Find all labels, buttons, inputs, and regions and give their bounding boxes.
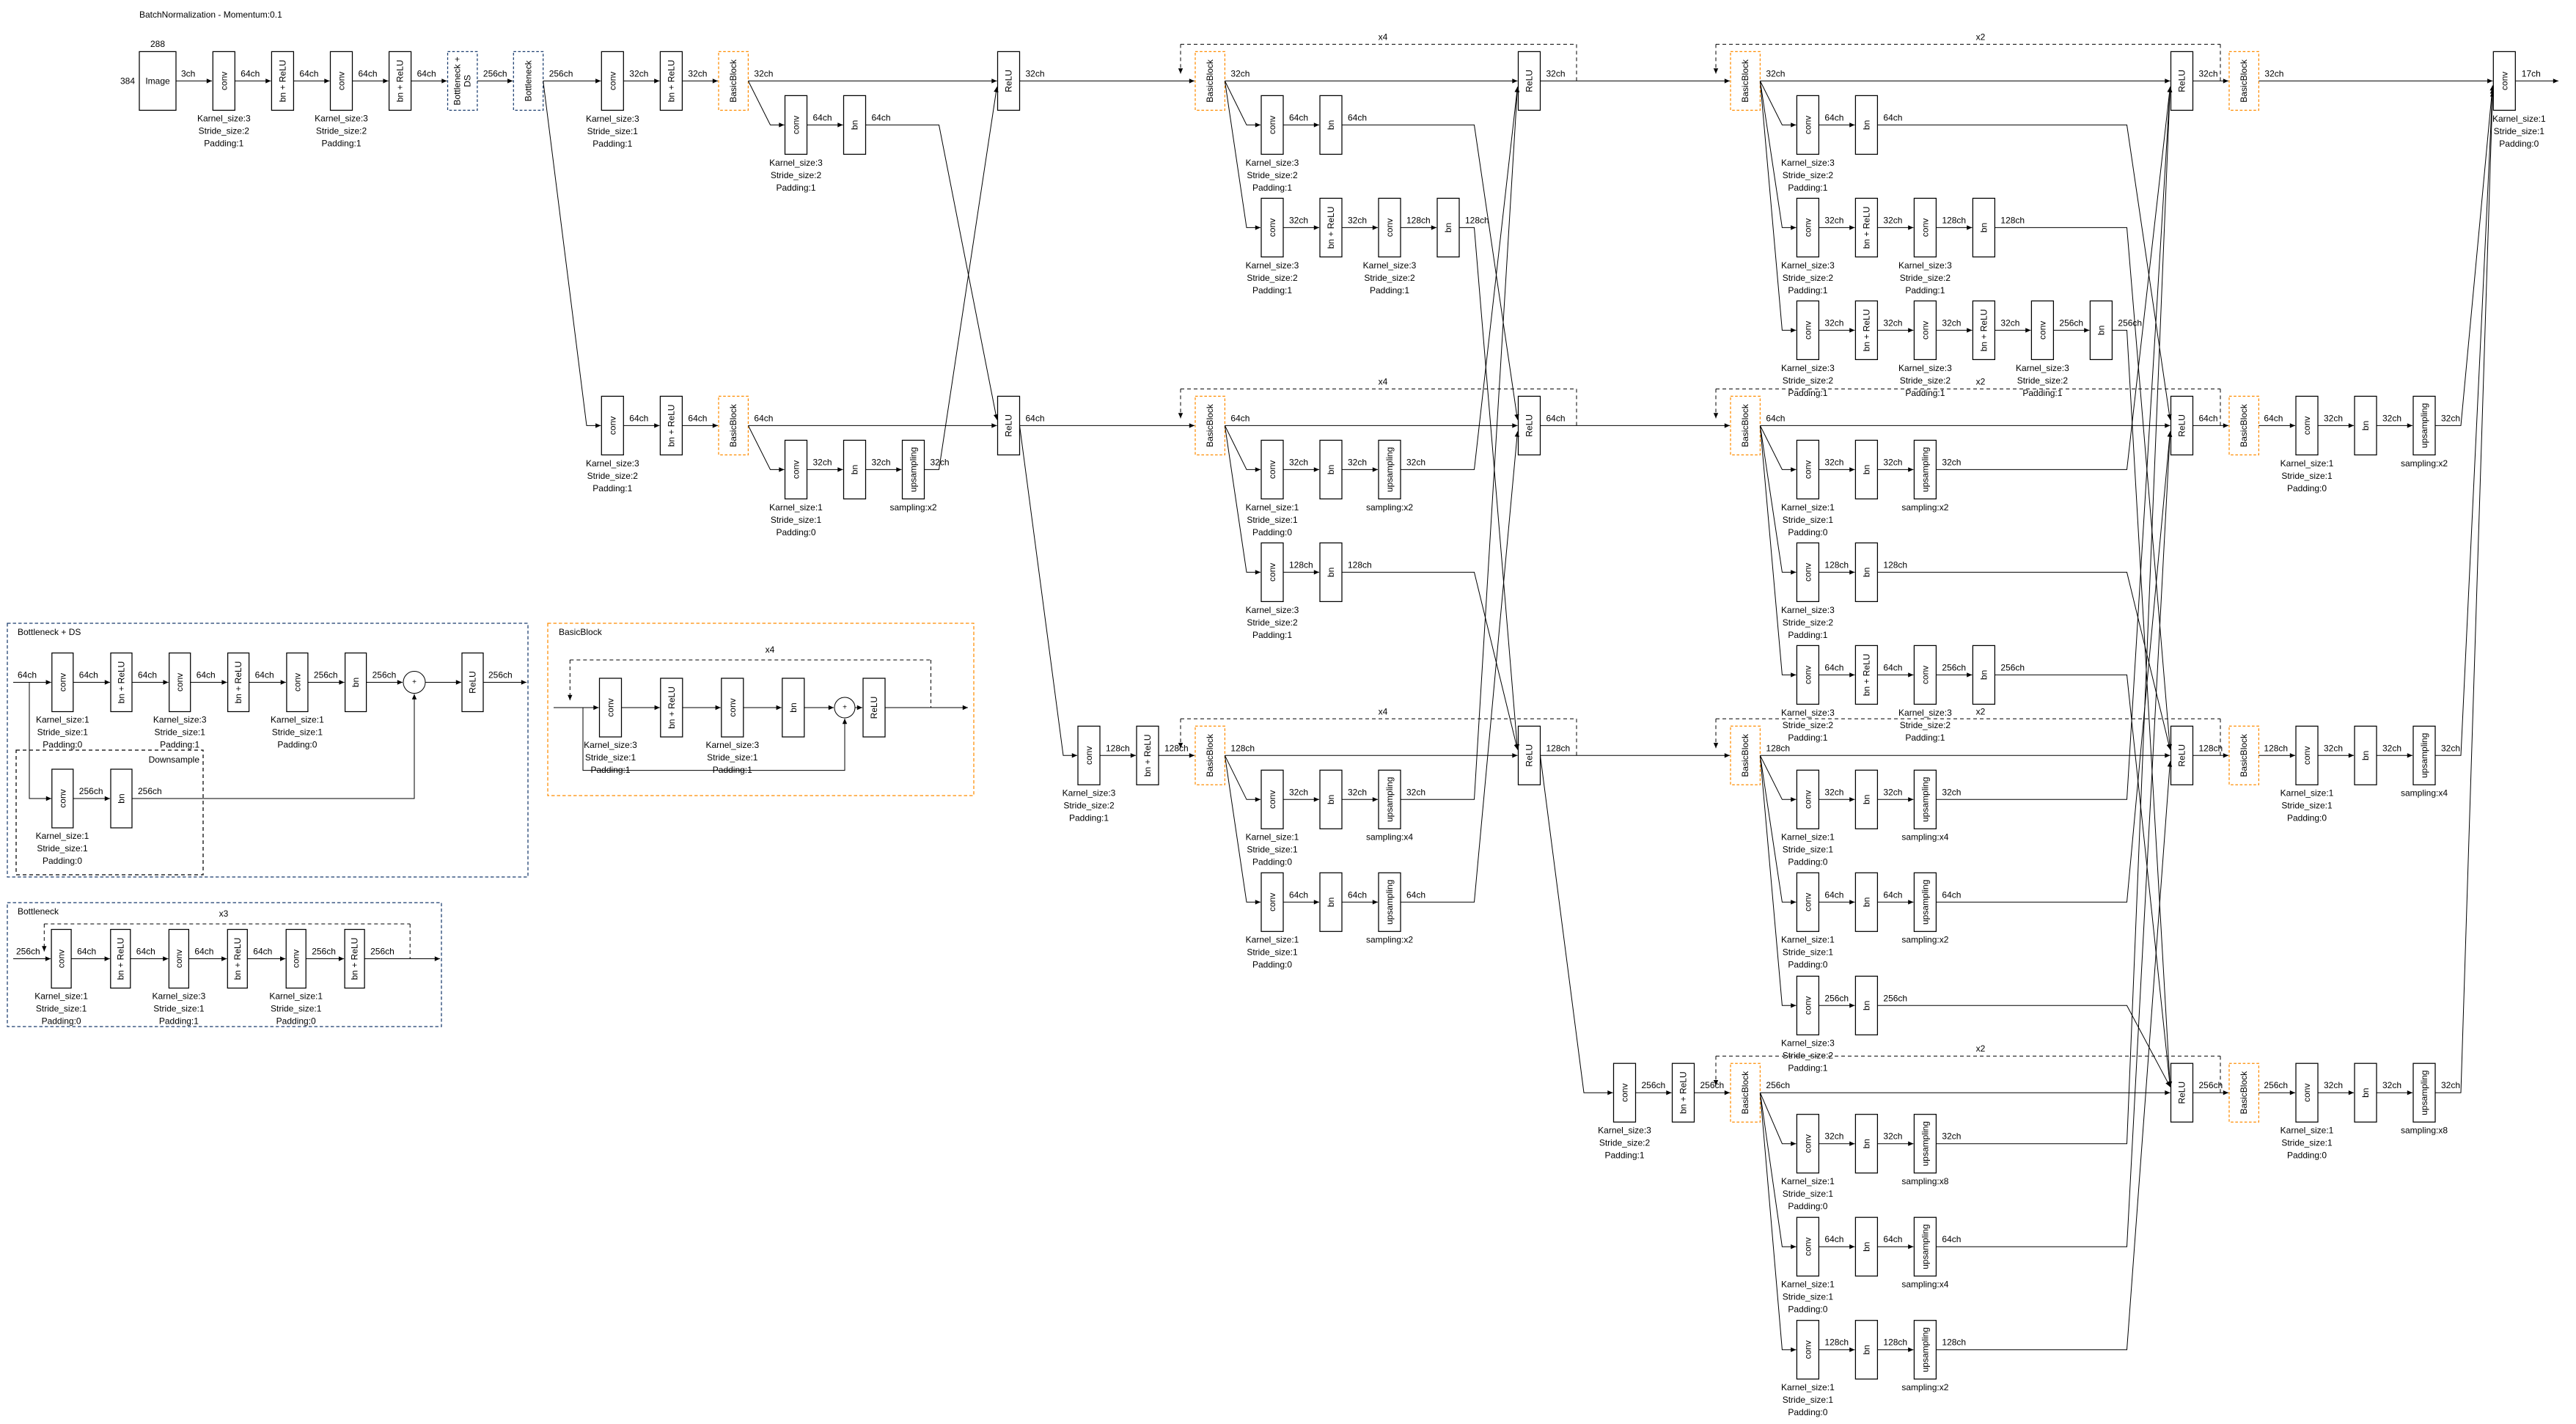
wire BasicBlock row2->branch1 S3 <box>1225 425 1261 469</box>
svg-text:32ch: 32ch <box>1348 787 1367 797</box>
wire bn+ReLU->BasicBlock S3 row3 <box>1159 755 1195 756</box>
svg-text:conv: conv <box>1920 219 1930 237</box>
svg-text:64ch: 64ch <box>688 413 707 423</box>
svg-text:32ch: 32ch <box>1348 215 1367 225</box>
S2 r2b1 sampling label <box>889 502 936 513</box>
svg-text:ReLU: ReLU <box>1524 414 1535 437</box>
S4 r3b3 bn box <box>1855 976 1877 1035</box>
svg-text:32ch: 32ch <box>1289 215 1308 225</box>
svg-text:BasicBlock: BasicBlock <box>2239 733 2249 777</box>
svg-text:Karnel_size:3: Karnel_size:3 <box>1898 708 1952 718</box>
legend Bottleneck outer box <box>7 903 441 1027</box>
svg-text:64ch: 64ch <box>255 670 274 680</box>
svg-text:64ch: 64ch <box>872 112 891 122</box>
svg-text:Downsample: Downsample <box>149 755 200 765</box>
legend3 wire add->ReLU <box>855 707 862 708</box>
S4 r1b3 conv params <box>1781 363 1835 398</box>
S4 r3b3 conv params <box>1781 1038 1835 1073</box>
svg-text:Stride_size:1: Stride_size:1 <box>2281 1138 2333 1148</box>
svg-text:32ch: 32ch <box>2000 318 2019 328</box>
S4 r1b1 bn box <box>1855 95 1877 154</box>
svg-text:32ch: 32ch <box>1942 318 1961 328</box>
svg-text:Stride_size:1: Stride_size:1 <box>36 1004 87 1014</box>
svg-text:32ch: 32ch <box>629 68 648 78</box>
wire S3 r2b2 0 <box>1283 559 1319 572</box>
svg-text:Padding:1: Padding:1 <box>159 1016 199 1027</box>
svg-text:ReLU: ReLU <box>869 697 879 719</box>
wire BasicBlock->ReLU S4 row2 <box>1760 425 2170 426</box>
wire branch row3->ReLU row2 S4 <box>1936 431 2170 902</box>
wire S4 r1b3 3 <box>1995 318 2030 330</box>
svg-text:sampling:x4: sampling:x4 <box>1366 832 1413 843</box>
wire ReLU S4->BasicBlock final row2 <box>2193 425 2229 426</box>
svg-text:bn: bn <box>1861 120 1871 130</box>
legend1 wire 1 <box>132 670 169 683</box>
wire BasicBlock row4->branch1 S4 <box>1760 1093 1796 1144</box>
svg-text:Stride_size:1: Stride_size:1 <box>2281 471 2333 481</box>
svg-text:upsampling: upsampling <box>1384 880 1395 925</box>
legend1 params conv1 <box>36 715 89 750</box>
svg-text:Padding:1: Padding:1 <box>1788 630 1827 640</box>
svg-text:conv: conv <box>607 72 617 90</box>
S4 r1b3 bn box <box>2090 301 2112 359</box>
svg-text:64ch: 64ch <box>1883 889 1902 900</box>
label 32ch <box>1766 68 1785 78</box>
svg-text:x2: x2 <box>1976 32 1986 42</box>
svg-text:64ch: 64ch <box>1406 889 1425 900</box>
svg-text:Padding:0: Padding:0 <box>1788 1201 1827 1211</box>
svg-text:Stride_size:1: Stride_size:1 <box>1783 515 1834 525</box>
svg-text:BasicBlock: BasicBlock <box>1205 403 1215 447</box>
S4 r3b2 conv params <box>1781 935 1835 970</box>
legend3 params conv2 <box>705 740 759 775</box>
wire bn->upsampling final row2 <box>2377 425 2412 426</box>
svg-text:upsampling: upsampling <box>2419 403 2429 448</box>
svg-text:BasicBlock: BasicBlock <box>728 59 738 103</box>
svg-text:32ch: 32ch <box>2199 68 2218 78</box>
S3 r3b2 conv box <box>1261 873 1283 931</box>
S3 r2b1 sampling label <box>1366 502 1413 513</box>
upsampling final row2 <box>2413 396 2435 455</box>
wire BasicBlock->ReLU S2 row1 <box>748 80 997 81</box>
S4 r1b2 conv box <box>1797 198 1819 257</box>
svg-text:3ch: 3ch <box>181 68 195 78</box>
svg-text:256ch: 256ch <box>312 947 336 957</box>
S4 r2b3 conv params <box>1781 708 1835 743</box>
svg-text:32ch: 32ch <box>1824 1131 1843 1142</box>
conv S3 row3 entry <box>1078 726 1100 785</box>
svg-text:sampling:x2: sampling:x2 <box>1366 502 1413 513</box>
wire branch row2->ReLU row1 S3 <box>1401 87 1518 469</box>
svg-text:128ch: 128ch <box>1942 1337 1966 1348</box>
S2 r2b1 bn box <box>844 440 866 499</box>
wire conv->bn+ReLU S2 row2 <box>623 425 659 426</box>
S4 r1b2 conv params <box>1781 260 1835 296</box>
svg-text:Bottleneck: Bottleneck <box>18 906 59 917</box>
wire bn+ReLU->Bottleneck+DS <box>411 80 447 81</box>
svg-text:256ch: 256ch <box>16 947 40 957</box>
label 128ch <box>1465 215 1489 225</box>
wire BasicBlock row4->branch3 S4 <box>1760 1093 1796 1350</box>
label 64ch <box>1026 413 1045 423</box>
label 64ch <box>2199 413 2218 423</box>
wire S4 r2b3 0 <box>1819 662 1854 675</box>
svg-text:32ch: 32ch <box>1230 68 1250 78</box>
legend1 conv box 4 <box>287 653 308 712</box>
bn + ReLU S1-2 <box>389 51 411 110</box>
svg-text:32ch: 32ch <box>688 68 707 78</box>
legend2 wire 4 <box>306 947 344 959</box>
S3 r2b1 conv box <box>1261 440 1283 499</box>
wire conv->bn+ReLU S4 row4 <box>1636 1092 1672 1093</box>
S3 r3b1 bn box <box>1320 770 1342 829</box>
svg-text:bn: bn <box>1861 795 1871 804</box>
legend1 bn box 5 <box>345 653 367 712</box>
sampling label final row3 <box>2401 788 2448 799</box>
svg-text:x4: x4 <box>1379 376 1388 386</box>
svg-text:sampling:x4: sampling:x4 <box>1901 1280 1948 1290</box>
svg-text:bn: bn <box>1326 795 1336 804</box>
svg-text:conv: conv <box>791 116 801 134</box>
label 32ch <box>2441 743 2460 753</box>
svg-text:upsampling: upsampling <box>1920 1225 1930 1269</box>
wire BasicBlock row3->branch2 S3 <box>1225 755 1261 902</box>
svg-text:BasicBlock: BasicBlock <box>2239 1071 2249 1115</box>
S3 r1b1 conv params <box>1246 158 1299 193</box>
svg-text:Stride_size:2: Stride_size:2 <box>316 125 367 136</box>
S4 r3b3 conv box <box>1797 976 1819 1035</box>
svg-text:Padding:1: Padding:1 <box>1788 733 1827 743</box>
svg-text:17ch: 17ch <box>2522 68 2541 78</box>
svg-text:32ch: 32ch <box>1824 318 1843 328</box>
wire S4 r3b2 1 <box>1877 889 1913 902</box>
svg-text:32ch: 32ch <box>1883 457 1902 467</box>
block BasicBlock S4 row3 <box>1731 726 1760 785</box>
svg-text:32ch: 32ch <box>813 457 832 467</box>
svg-text:conv: conv <box>219 72 229 90</box>
svg-text:64ch: 64ch <box>1546 413 1566 423</box>
params conv final row3 <box>2280 788 2334 823</box>
params conv output <box>2492 114 2546 149</box>
svg-text:Padding:0: Padding:0 <box>1252 527 1292 537</box>
wire upsampling->conv output row4 <box>2435 91 2492 1093</box>
svg-text:Padding:1: Padding:1 <box>776 183 815 193</box>
svg-text:Karnel_size:1: Karnel_size:1 <box>769 502 823 513</box>
svg-text:Padding:0: Padding:0 <box>1788 960 1827 970</box>
svg-text:sampling:x8: sampling:x8 <box>1901 1176 1948 1186</box>
svg-text:32ch: 32ch <box>1942 787 1961 797</box>
legend2 params conv1 <box>34 991 88 1027</box>
svg-text:Stride_size:1: Stride_size:1 <box>585 752 636 763</box>
svg-text:bn + ReLU: bn + ReLU <box>1326 207 1336 249</box>
wire S4 r1b3 0 <box>1819 318 1854 330</box>
svg-text:bn: bn <box>788 702 799 712</box>
legend1 wire bn->add (downsample path) <box>132 694 414 799</box>
svg-text:Stride_size:2: Stride_size:2 <box>1783 617 1834 628</box>
svg-text:bn: bn <box>1978 670 1989 680</box>
label 384 (image height) <box>120 76 135 86</box>
svg-text:Padding:1: Padding:1 <box>1788 183 1827 193</box>
label 32ch <box>1942 1131 1961 1142</box>
S4 r2b1 bn box <box>1855 440 1877 499</box>
S2 r1b1 conv box <box>785 95 807 154</box>
wire BasicBlock->ReLU S4 row3 <box>1760 755 2170 756</box>
svg-text:ReLU: ReLU <box>1004 414 1014 437</box>
svg-text:Karnel_size:1: Karnel_size:1 <box>1246 935 1299 945</box>
label 32ch <box>931 457 950 467</box>
S3 r1b2 conv box <box>1379 198 1401 257</box>
svg-text:ReLU: ReLU <box>1524 744 1535 767</box>
svg-text:conv: conv <box>292 673 302 691</box>
wire upsampling->conv output row3 <box>2435 88 2492 755</box>
S4 r4b2 bn box <box>1855 1217 1877 1276</box>
wire branch row3->ReLU row1 S3 <box>1401 87 1518 799</box>
S4 r1b3 bn + ReLU box <box>1855 301 1877 359</box>
S3 r1b1 conv box <box>1261 95 1283 154</box>
svg-text:conv: conv <box>1802 321 1813 340</box>
svg-text:Karnel_size:3: Karnel_size:3 <box>584 740 637 750</box>
svg-text:64ch: 64ch <box>1824 889 1843 900</box>
svg-text:256ch: 256ch <box>488 670 513 680</box>
label 64ch <box>1230 413 1250 423</box>
svg-text:Stride_size:1: Stride_size:1 <box>37 843 88 854</box>
svg-text:Karnel_size:3: Karnel_size:3 <box>1246 158 1299 168</box>
label 256ch <box>1642 1080 1666 1090</box>
svg-text:bn + ReLU: bn + ReLU <box>1861 309 1871 352</box>
svg-text:Karnel_size:1: Karnel_size:1 <box>2280 1126 2334 1136</box>
wire S4 r1b3 2 <box>1936 318 1972 330</box>
label 32ch <box>2441 413 2460 423</box>
legend1 wire conv->bn downsample <box>73 786 110 799</box>
legend3 loop dashed rect x4 <box>570 660 931 708</box>
wire S4 r2b3 1 <box>1877 662 1913 675</box>
label 64ch <box>1406 889 1425 900</box>
svg-text:x2: x2 <box>1976 1043 1986 1054</box>
S4 r3b2 conv box <box>1797 873 1819 931</box>
wire S3 r1b1 0 <box>1283 112 1319 125</box>
block BasicBlock S4 row4 <box>1731 1063 1760 1122</box>
sampling label final row4 <box>2401 1126 2448 1136</box>
S3 r1b2 conv params <box>1246 260 1299 296</box>
svg-text:BasicBlock: BasicBlock <box>728 403 738 447</box>
svg-text:bn + ReLU: bn + ReLU <box>277 60 287 103</box>
svg-text:ReLU: ReLU <box>2177 744 2187 767</box>
ReLU S4 row2 <box>2171 396 2193 455</box>
svg-text:bn + ReLU: bn + ReLU <box>232 938 243 980</box>
wire S2 r2b1 1 <box>866 457 902 469</box>
svg-text:Padding:0: Padding:0 <box>2499 139 2539 149</box>
svg-text:conv: conv <box>1267 116 1277 134</box>
wire BasicBlock row3->branch3 S4 <box>1760 755 1796 1005</box>
svg-text:Padding:1: Padding:1 <box>1905 285 1945 296</box>
legend1 params conv3 <box>271 715 324 750</box>
svg-text:upsampling: upsampling <box>1920 880 1930 925</box>
label 32ch <box>1406 787 1425 797</box>
wire BasicBlock row2->branch1 S2 <box>748 425 784 469</box>
svg-text:conv: conv <box>2037 321 2047 340</box>
svg-text:Stride_size:1: Stride_size:1 <box>1247 845 1298 855</box>
svg-text:32ch: 32ch <box>1824 215 1843 225</box>
svg-text:Karnel_size:1: Karnel_size:1 <box>269 991 323 1002</box>
wire BasicBlock->ReLU S3 row1 <box>1225 80 1517 81</box>
wire S4 r1b2 1 <box>1877 215 1913 227</box>
svg-text:bn: bn <box>2360 751 2371 760</box>
legend1 Downsample title <box>149 755 200 765</box>
svg-text:Stride_size:2: Stride_size:2 <box>587 471 639 481</box>
bn + ReLU S4 row4 <box>1673 1063 1695 1122</box>
svg-text:BasicBlock: BasicBlock <box>1205 59 1215 103</box>
label 64ch <box>2264 413 2283 423</box>
svg-text:sampling:x2: sampling:x2 <box>1366 935 1413 945</box>
svg-text:256ch: 256ch <box>2000 662 2025 672</box>
label 128ch <box>1348 559 1372 570</box>
label 128ch <box>2199 743 2223 753</box>
S4 r4b3 upsampling box <box>1914 1321 1936 1379</box>
svg-text:bn: bn <box>850 465 860 474</box>
svg-text:Stride_size:2: Stride_size:2 <box>1063 801 1115 811</box>
svg-text:Padding:1: Padding:1 <box>592 483 632 493</box>
legend3 conv box 2 <box>722 678 744 737</box>
label 32ch <box>2324 1080 2343 1090</box>
label 128ch <box>1883 559 1907 570</box>
svg-text:bn + ReLU: bn + ReLU <box>350 938 360 980</box>
svg-text:256ch: 256ch <box>1824 993 1849 1003</box>
label 17ch <box>2522 68 2541 78</box>
wire S4 r3b3 0 <box>1819 993 1854 1005</box>
wire branch row1->ReLU row3 S3 <box>1459 227 1518 749</box>
svg-text:bn: bn <box>1861 1139 1871 1148</box>
S3 r3b1 conv box <box>1261 770 1283 829</box>
S4 r3b1 sampling label <box>1901 832 1948 843</box>
block BasicBlock S4 row2 <box>1731 396 1760 455</box>
S3 r3b2 upsampling box <box>1379 873 1401 931</box>
svg-text:Padding:0: Padding:0 <box>1788 857 1827 867</box>
loop dashed rect x4 S3 row2 <box>1181 376 1577 425</box>
svg-text:Karnel_size:3: Karnel_size:3 <box>1598 1126 1651 1136</box>
svg-text:128ch: 128ch <box>1465 215 1489 225</box>
S3 r1b2 bn box <box>1437 198 1459 257</box>
S3 r2b2 bn box <box>1320 543 1342 601</box>
svg-text:BasicBlock: BasicBlock <box>1740 59 1750 103</box>
svg-text:conv: conv <box>1802 666 1813 684</box>
S2 r1b1 conv params <box>769 158 823 193</box>
legend1 downsample bn box <box>111 769 132 828</box>
svg-text:128ch: 128ch <box>1348 559 1372 570</box>
legend BasicBlock outer box <box>548 623 974 796</box>
loop dashed rect x2 S4 row3 <box>1716 706 2220 755</box>
svg-text:64ch: 64ch <box>18 670 37 680</box>
svg-text:64ch: 64ch <box>1230 413 1250 423</box>
svg-text:64ch: 64ch <box>2199 413 2218 423</box>
wire S4 r4b2 1 <box>1877 1234 1913 1247</box>
S3 r2b2 conv params <box>1246 605 1299 640</box>
legend BasicBlock title <box>559 627 603 637</box>
svg-text:sampling:x2: sampling:x2 <box>1901 1382 1948 1392</box>
legend3 wire 2 <box>744 707 782 708</box>
svg-text:Stride_size:2: Stride_size:2 <box>1247 273 1298 283</box>
label 32ch <box>1026 68 1045 78</box>
S4 r3b1 upsampling box <box>1914 770 1936 829</box>
sampling label final row2 <box>2401 458 2448 469</box>
svg-text:Stride_size:1: Stride_size:1 <box>153 1004 205 1014</box>
svg-text:256ch: 256ch <box>2118 318 2142 328</box>
svg-text:Padding:1: Padding:1 <box>204 138 243 148</box>
legend1 wire add->ReLU <box>425 682 461 683</box>
wire BasicBlock row2->branch2 S3 <box>1225 425 1261 572</box>
wire Bottleneck->row2 entry (diagonal) <box>543 81 601 425</box>
S4 r1b2 conv box <box>1914 198 1936 257</box>
S4 r2b2 conv params <box>1781 605 1835 640</box>
ReLU S2 row1 <box>998 51 1020 110</box>
params conv final row2 <box>2280 458 2334 493</box>
svg-text:Padding:1: Padding:1 <box>2022 388 2062 398</box>
legend3 wire 1 <box>683 707 721 708</box>
S4 r1b3 conv params <box>2016 363 2069 398</box>
svg-text:conv: conv <box>607 416 617 435</box>
svg-text:32ch: 32ch <box>1942 457 1961 467</box>
S4 r2b1 conv box <box>1797 440 1819 499</box>
svg-text:32ch: 32ch <box>1289 457 1308 467</box>
svg-text:128ch: 128ch <box>1883 1337 1907 1348</box>
block Bottleneck <box>513 51 543 110</box>
wire conv->bn+ReLU S3 row3 <box>1100 755 1136 756</box>
svg-text:256ch: 256ch <box>2264 1080 2288 1090</box>
svg-text:Padding:1: Padding:1 <box>592 139 632 149</box>
svg-text:32ch: 32ch <box>2324 743 2343 753</box>
wire S4 r1b3 1 <box>1877 318 1913 330</box>
svg-text:Karnel_size:3: Karnel_size:3 <box>769 158 823 168</box>
wire S3 r2b1 1 <box>1342 457 1378 469</box>
S4 r4b2 conv box <box>1797 1217 1819 1276</box>
wire S4 r1b1 0 <box>1819 112 1854 125</box>
S4 r1b1 conv box <box>1797 95 1819 154</box>
svg-text:Karnel_size:3: Karnel_size:3 <box>2016 363 2069 373</box>
params conv final row4 <box>2280 1126 2334 1161</box>
svg-text:64ch: 64ch <box>1348 889 1367 900</box>
wire branch row3->ReLU row1 S4 <box>1936 87 2170 799</box>
label 256ch <box>1883 993 1907 1003</box>
conv final row3 <box>2296 726 2318 785</box>
wire BasicBlock row1->branch2 S4 <box>1760 81 1796 227</box>
wire BasicBlock final row1 -> conv output <box>2258 80 2492 81</box>
S3 r1b2 bn + ReLU box <box>1320 198 1342 257</box>
bn final row2 <box>2355 396 2377 455</box>
legend Bottleneck + DS title <box>18 627 81 637</box>
svg-text:bn: bn <box>1326 120 1336 130</box>
svg-text:128ch: 128ch <box>1766 743 1790 753</box>
svg-text:256ch: 256ch <box>138 786 162 796</box>
svg-text:conv: conv <box>1802 563 1813 581</box>
svg-text:Karnel_size:3: Karnel_size:3 <box>1781 158 1835 168</box>
S4 r1b3 conv box <box>1914 301 1936 359</box>
svg-text:upsampling: upsampling <box>2419 733 2429 778</box>
svg-text:32ch: 32ch <box>754 68 773 78</box>
svg-text:upsampling: upsampling <box>2419 1071 2429 1115</box>
svg-text:conv: conv <box>1802 116 1813 134</box>
svg-text:Padding:1: Padding:1 <box>1252 285 1292 296</box>
svg-text:bn + ReLU: bn + ReLU <box>666 60 676 103</box>
svg-text:Stride_size:2: Stride_size:2 <box>1783 170 1834 180</box>
legend2 wire 2 <box>188 947 227 959</box>
svg-text:64ch: 64ch <box>1026 413 1045 423</box>
svg-text:conv: conv <box>1384 219 1395 237</box>
svg-text:256ch: 256ch <box>1942 662 1966 672</box>
block BasicBlock final row4 <box>2229 1063 2258 1122</box>
svg-text:Padding:0: Padding:0 <box>43 856 82 866</box>
label 32ch <box>2382 413 2401 423</box>
wire branch row3->ReLU row4 S4 <box>1877 1005 2170 1087</box>
label 64ch <box>1942 889 1961 900</box>
